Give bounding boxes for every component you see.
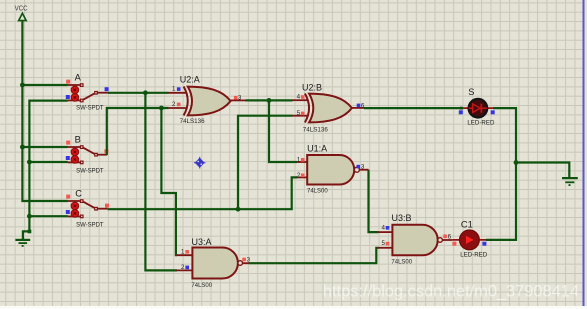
wire VCC rail (vertical left) <box>22 21 68 201</box>
LED S (LED-RED) <box>459 87 495 126</box>
svg-text:https://blog.csdn.net/m0_37908: https://blog.csdn.net/m0_37908414 <box>323 283 579 301</box>
svg-text:2: 2 <box>181 264 185 271</box>
svg-text:S: S <box>468 87 474 97</box>
op gate U1:A (NAND 74LS00) <box>297 144 369 195</box>
switch SW2 B (SW-SPDT) <box>66 134 109 174</box>
wire U3:A out to U3:B pin5 <box>249 248 379 263</box>
LED C1 (LED-RED) <box>452 220 487 259</box>
wire B-net tap down to U3:A pin1 <box>161 108 177 255</box>
wire switch B pole up to U2:A pin2 <box>107 108 169 155</box>
wire A-net tap down to U3:A pin2 <box>145 93 177 271</box>
wire ground rail to switch B bottom <box>29 161 68 163</box>
origin marker <box>194 157 206 169</box>
svg-text:C1: C1 <box>461 220 473 230</box>
op gate U3:B (NAND 74LS00) <box>378 213 452 265</box>
svg-text:4: 4 <box>297 93 301 100</box>
svg-text:U2:A: U2:A <box>180 75 200 85</box>
wire VCC to switch B top <box>22 146 68 148</box>
switch SW1 A (SW-SPDT) <box>66 72 109 111</box>
ground (left) <box>15 240 30 246</box>
svg-text:VCC: VCC <box>15 5 28 12</box>
node GND corner terminal <box>28 230 32 234</box>
svg-text:5: 5 <box>297 110 301 117</box>
svg-text:U2:B: U2:B <box>302 83 322 93</box>
svg-text:U3:A: U3:A <box>192 237 212 247</box>
svg-text:74LS00: 74LS00 <box>191 282 212 289</box>
svg-text:LED-RED: LED-RED <box>467 119 494 126</box>
node GND/B-bottom junction <box>27 160 32 165</box>
svg-text:6: 6 <box>361 102 365 109</box>
svg-text:B: B <box>75 134 81 144</box>
node B-net junction <box>159 106 164 111</box>
op gate U2:A (XOR 74LS136) <box>168 75 246 125</box>
svg-text:U1:A: U1:A <box>307 144 327 154</box>
wire junction to right ground <box>516 163 569 178</box>
svg-text:4: 4 <box>381 225 385 232</box>
wire VCC to switch A top <box>22 84 68 86</box>
wire U2:B out to LED S <box>364 107 463 109</box>
node S/ground junction <box>514 160 519 165</box>
wire (A xor B) down to U1:A pin1 <box>269 100 297 162</box>
svg-text:SW-SPDT: SW-SPDT <box>76 105 104 112</box>
svg-text:2: 2 <box>172 101 176 108</box>
node C-net junction <box>236 207 241 212</box>
ground (right) <box>562 178 578 185</box>
svg-text:3: 3 <box>238 95 242 102</box>
wire C-net up to U2:B pin5 <box>238 116 293 210</box>
node A-net junction <box>143 90 148 95</box>
node VCC/A-top junction <box>20 83 25 88</box>
wire switch A pole to U2:A pin1 <box>108 92 169 94</box>
power terminal VCC <box>19 13 27 20</box>
svg-text:2: 2 <box>297 172 301 179</box>
svg-text:A: A <box>75 72 82 82</box>
op gate U2:B (XOR 74LS136) <box>292 83 365 134</box>
wire U1:A out down to U3:B pin4 <box>369 170 379 232</box>
svg-text:74LS136: 74LS136 <box>303 127 328 134</box>
wire U2:A out to U2:B pin4 <box>246 99 293 101</box>
node VCC/B-top junction <box>20 145 25 150</box>
svg-text:5: 5 <box>381 240 385 247</box>
svg-text:1: 1 <box>172 86 176 93</box>
svg-text:SW-SPDT: SW-SPDT <box>76 167 104 174</box>
switch SW3 C (SW-SPDT) <box>66 188 109 228</box>
svg-text:SW-SPDT: SW-SPDT <box>76 221 104 228</box>
wire LED S to ground net <box>486 108 516 240</box>
sheet border (blue) <box>583 0 585 306</box>
svg-text:LED-RED: LED-RED <box>460 251 487 258</box>
svg-text:74LS00: 74LS00 <box>307 188 328 195</box>
svg-text:6: 6 <box>448 234 452 241</box>
svg-text:1: 1 <box>297 156 301 163</box>
svg-text:C: C <box>75 188 82 198</box>
node GND/C-bottom junction <box>27 214 32 219</box>
node (A xor B) junction <box>267 98 272 103</box>
svg-text:3: 3 <box>247 257 251 264</box>
svg-text:3: 3 <box>361 164 365 171</box>
svg-text:1: 1 <box>181 249 185 256</box>
wire ground rail (vertical) <box>23 101 68 240</box>
wire switch C pole to U1:A pin2 <box>108 177 297 209</box>
wire ground rail to switch C bottom <box>29 215 68 217</box>
svg-text:U3:B: U3:B <box>392 213 412 223</box>
svg-text:74LS136: 74LS136 <box>180 118 205 125</box>
svg-text:74LS00: 74LS00 <box>391 258 412 265</box>
op gate U3:A (NAND 74LS00) <box>176 237 250 289</box>
